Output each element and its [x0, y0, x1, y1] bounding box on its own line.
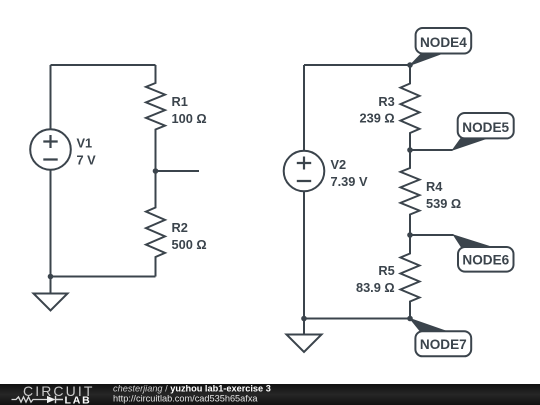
svg-text:R5: R5: [378, 263, 394, 278]
node callout NODE6: [454, 235, 514, 272]
svg-text:chesterjiang / yuzhou lab1-exe: chesterjiang / yuzhou lab1-exercise 3: [113, 384, 271, 394]
footer logo diode: [47, 396, 63, 404]
footer bar: [0, 384, 540, 405]
footer logo resistor squiggle: [12, 397, 48, 402]
svg-text:R1: R1: [172, 94, 188, 109]
wire top horizontal right circuit: [304, 64, 410, 66]
svg-text:7.39 V: 7.39 V: [331, 174, 368, 189]
resistor R4: [401, 150, 420, 235]
wire bottom horizontal left circuit: [51, 276, 156, 278]
node junction ground left: [48, 274, 54, 280]
svg-text:NODE5: NODE5: [462, 120, 509, 135]
ground right circuit: [287, 319, 322, 353]
svg-text:V2: V2: [331, 157, 347, 172]
node junction ground right: [301, 316, 307, 322]
wire V1 top lead: [50, 65, 52, 129]
svg-text:100 Ω: 100 Ω: [172, 111, 207, 126]
voltage source V2: [284, 151, 325, 192]
wire V1 bottom lead: [50, 171, 52, 277]
node callout NODE7: [410, 319, 471, 357]
svg-text:83.9 Ω: 83.9 Ω: [356, 280, 395, 295]
svg-text:539 Ω: 539 Ω: [426, 196, 461, 211]
resistor R2: [146, 171, 165, 277]
svg-text:239 Ω: 239 Ω: [360, 110, 395, 125]
node junction mid left: [153, 168, 159, 174]
wire V2 top lead: [303, 65, 305, 150]
node NODE5 junction: [407, 147, 413, 153]
ground left circuit: [34, 277, 68, 311]
wire bottom horizontal right circuit: [304, 318, 410, 320]
svg-text:NODE6: NODE6: [462, 252, 509, 267]
resistor R5: [401, 235, 420, 319]
node NODE7 junction: [407, 316, 413, 322]
svg-text:NODE4: NODE4: [420, 35, 467, 50]
wire stub from mid node: [156, 170, 200, 172]
wire node6 stub: [410, 234, 454, 236]
wire node5 stub: [410, 149, 453, 151]
node NODE6 junction: [407, 232, 413, 238]
svg-text:NODE7: NODE7: [420, 337, 467, 352]
node callout NODE5: [453, 113, 514, 150]
resistor R1: [146, 65, 165, 171]
svg-text:http://circuitlab.com/cad535h6: http://circuitlab.com/cad535h65afxa: [113, 394, 258, 404]
node callout NODE4: [410, 28, 471, 65]
svg-text:7 V: 7 V: [77, 153, 97, 168]
resistor R3: [401, 65, 420, 150]
svg-text:500 Ω: 500 Ω: [172, 237, 207, 252]
wire V2 bottom lead: [303, 191, 305, 319]
svg-text:R2: R2: [172, 220, 188, 235]
svg-text:V1: V1: [77, 136, 93, 151]
svg-text:LAB: LAB: [65, 394, 92, 405]
svg-text:R3: R3: [378, 94, 394, 109]
voltage source V1: [30, 129, 71, 170]
node NODE4 junction: [407, 62, 413, 68]
wire top horizontal left circuit: [51, 64, 156, 66]
svg-text:R4: R4: [426, 179, 443, 194]
